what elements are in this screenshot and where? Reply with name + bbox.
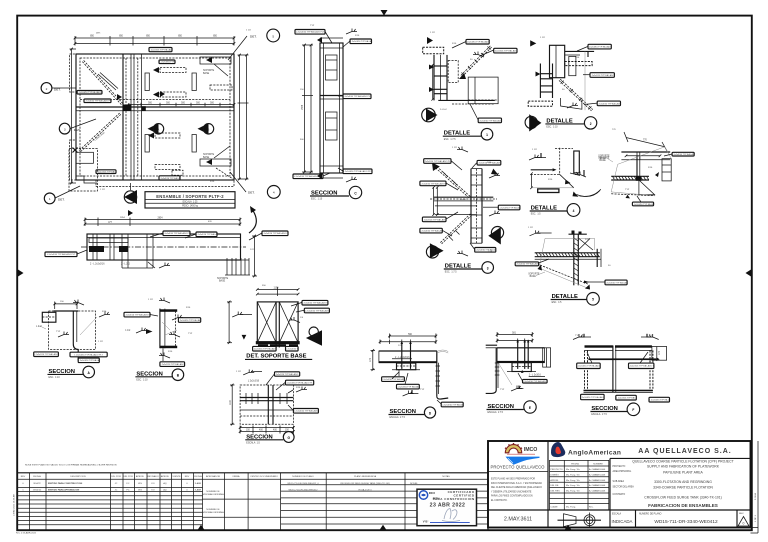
svg-text:L 2x2x3/16 TYP EA LADO: L 2x2x3/16 TYP EA LADO — [478, 119, 502, 122]
seccion C bottom detail — [317, 173, 357, 182]
plan top dimension lines — [74, 36, 236, 46]
svg-text:TYP: TYP — [649, 335, 654, 337]
table revision row 1 — [22, 482, 418, 485]
svg-text:BASE: BASE — [219, 280, 226, 283]
detalle 3 leader lines — [442, 161, 498, 250]
svg-text:Ma. Fang. Tch: Ma. Fang. Tch — [566, 485, 581, 487]
seccion D leader lines — [392, 372, 408, 384]
svg-text:ESC. 1:7.5: ESC. 1:7.5 — [445, 272, 457, 274]
detalle 5 tilted plate — [538, 238, 595, 289]
seccion C title — [310, 186, 362, 200]
plan short diagonal stiffener upper left — [98, 73, 118, 91]
svg-text:AQ: AQ — [163, 482, 166, 485]
iso leader lines — [637, 154, 672, 202]
detalle 3 left dimension lines — [432, 186, 438, 216]
elevation leader lines — [77, 233, 262, 254]
seccion G bottom dimensions — [239, 426, 295, 434]
svg-text:L 2x2x3/16 TYP EA LA: L 2x2x3/16 TYP EA LA — [159, 177, 181, 180]
svg-text:ESCALA: ESCALA — [612, 513, 622, 516]
svg-text:Rev. 0 23-ABR-2022: Rev. 0 23-ABR-2022 — [16, 532, 37, 535]
svg-text:1588: 1588 — [302, 104, 304, 110]
signature table — [550, 460, 609, 510]
svg-text:L 2x2x3/16 TYP EA LADO PLT: L 2x2x3/16 TYP EA LADO PLT — [285, 381, 314, 384]
seccion F weld flags top — [573, 334, 659, 340]
iso arrows — [626, 172, 660, 198]
svg-text:EL CONTRATO.: EL CONTRATO. — [491, 499, 508, 502]
detalle 1 bottom chord — [438, 100, 495, 104]
svg-text:L 2x2x3/16 TYP EA LADO: L 2x2x3/16 TYP EA LADO — [77, 91, 101, 94]
seccion B weld flags — [125, 298, 183, 359]
svg-text:L 2x2x3/16 TYP EA L: L 2x2x3/16 TYP EA L — [616, 397, 636, 400]
seccion G weld flag right — [288, 387, 307, 394]
svg-text:Ma. Fang. Tch: Ma. Fang. Tch — [566, 469, 581, 471]
svg-text:L 2x2x3/16 TYP EA LADO PLT: L 2x2x3/16 TYP EA LADO PLT — [343, 170, 372, 173]
det soporte frame — [257, 302, 298, 343]
svg-text:L 2x2x3/16 TYP EA LADO P: L 2x2x3/16 TYP EA LADO P — [274, 373, 301, 376]
svg-text:IMCO: IMCO — [429, 492, 435, 495]
seccion E right end plate — [543, 348, 551, 367]
svg-text:2.MAY.3611: 2.MAY.3611 — [504, 517, 532, 523]
svg-text:TYP: TYP — [420, 389, 425, 391]
svg-text:CENTRO DOCUMENTARIO: CENTRO DOCUMENTARIO — [250, 475, 278, 478]
svg-text:1 1/2: 1 1/2 — [452, 147, 458, 149]
svg-text:9-ABR: 9-ABR — [195, 489, 202, 492]
detalle 4 left dimension — [530, 172, 533, 189]
elevation left angle texts — [90, 264, 131, 266]
detalle 4 title — [530, 204, 580, 217]
stamp date red — [430, 502, 466, 508]
seccion C left dimension lines — [302, 44, 313, 174]
detalle 2 top beam — [565, 51, 594, 57]
svg-text:TYP: TYP — [310, 25, 315, 27]
fold mark bottom 2 — [380, 525, 387, 530]
svg-text:L 2x2x3/16 TYP EA LADO PLT: L 2x2x3/16 TYP EA LADO PLT — [343, 95, 372, 98]
seccion F top beam right — [615, 345, 652, 350]
seccion G view — [230, 369, 318, 444]
svg-text:L 2x2x3/16 TYP EA LAD: L 2x2x3/16 TYP EA LAD — [420, 230, 443, 233]
svg-text:A. CABANILLAS: A. CABANILLAS — [589, 479, 606, 482]
detalle 1 dashed vertical plate — [448, 61, 458, 83]
svg-text:TYP: TYP — [500, 389, 505, 391]
elevation main beam — [81, 234, 246, 260]
seccion G title — [245, 432, 294, 445]
svg-text:L 2x2x3/16 TYP EA LADO PLT: L 2x2x3/16 TYP EA LADO PLT — [423, 160, 452, 163]
seccion F right end box — [652, 347, 667, 361]
title block disclaimer text — [491, 478, 542, 503]
seccion G angle text — [248, 380, 260, 382]
detalle 2 bottom gusset plate — [561, 98, 582, 109]
seccion F middle horizontal bar — [588, 357, 659, 361]
svg-text:4: 4 — [273, 191, 275, 195]
iso tilted plate outline — [611, 147, 671, 196]
fold mark right — [746, 270, 752, 277]
seccion E lower box — [507, 363, 536, 372]
svg-text:FABRICACION DE ENSAMBLES: FABRICACION DE ENSAMBLES — [648, 503, 718, 508]
svg-text:CROSSFLOW FEED SURGE TANK (334: CROSSFLOW FEED SURGE TANK (3340-TK-101) — [340, 482, 390, 485]
svg-text:3340-COARSE PARTICLE FLOTATION: 3340-COARSE PARTICLE FLOTATION — [653, 486, 713, 490]
table row lines middle section — [203, 499, 281, 517]
detalle 3 label boxes — [420, 159, 520, 252]
detalle 5 weld flag top — [530, 230, 552, 236]
seccion F view — [573, 334, 670, 416]
svg-text:L 2x2x3/16 TYP EA LAD: L 2x2x3/16 TYP EA LAD — [672, 153, 695, 156]
svg-text:A. CABANILLAS: A. CABANILLAS — [589, 484, 606, 487]
svg-text:L 2x2x3/16 TYP EA LAD: L 2x2x3/16 TYP EA LAD — [149, 49, 172, 52]
svg-text:DET.: DET. — [58, 198, 65, 202]
table column lines — [30, 473, 406, 530]
svg-text:WD15-711-DR-3340-WE0412_0: WD15-711-DR-3340-WE0412_0 — [287, 483, 319, 485]
detalle 3 title — [444, 262, 494, 274]
svg-text:L 2x2x3/16 TYP EA LADO: L 2x2x3/16 TYP EA LADO — [588, 46, 612, 49]
detalle 5 label boxes — [515, 262, 628, 285]
detalle 2 title — [545, 117, 596, 129]
svg-text:FIRMA: FIRMA — [233, 475, 240, 478]
det soporte weld flags — [232, 312, 300, 323]
svg-text:SECTOR DEL AREA: SECTOR DEL AREA — [613, 486, 635, 489]
plan stiffener dashed boxes lower right quadrant — [148, 133, 183, 181]
table outer frame — [17, 473, 488, 530]
svg-text:NOTA: ESTE PLANO NO VALIDO SOL: NOTA: ESTE PLANO NO VALIDO SOLO CON FIRM… — [25, 464, 117, 467]
svg-text:L 2x2x3/16 TYP EA LADO PL: L 2x2x3/16 TYP EA LADO PL — [163, 232, 191, 235]
svg-text:CLASE: CLASE — [550, 506, 558, 509]
seccion F bottom label boxes — [580, 394, 669, 402]
svg-text:1 1/2: 1 1/2 — [540, 37, 546, 39]
plan left quadrant label bars — [77, 91, 117, 174]
svg-text:BASE: BASE — [530, 275, 537, 278]
svg-text:PLANO REFERENCIA: PLANO REFERENCIA — [354, 475, 377, 478]
svg-text:L 2x2x3/16 TYP EA LADO: L 2x2x3/16 TYP EA LADO — [580, 396, 604, 399]
plan section arrow B — [198, 123, 214, 134]
plan wall crossing dark plates — [123, 105, 146, 111]
seccion E bolt lines — [516, 340, 529, 373]
svg-text:ESC. 1:7.5: ESC. 1:7.5 — [444, 139, 456, 141]
detalle 2 vertical leader line — [584, 51, 586, 110]
svg-text:FECHA: FECHA — [194, 475, 202, 478]
svg-text:L 2x2x3/16 TYP EA LADO: L 2x2x3/16 TYP EA LADO — [252, 348, 276, 351]
svg-text:L 2x2x3/16 TYP EA LADO: L 2x2x3/16 TYP EA LADO — [515, 263, 539, 266]
svg-text:APROBADOR: APROBADOR — [206, 475, 220, 478]
detalle 3 section arrow right — [488, 227, 503, 245]
svg-text:TYP: TYP — [488, 251, 493, 253]
svg-text:SUPPLY AND FABRICATION OF PLAT: SUPPLY AND FABRICATION OF PLATEWORK — [647, 465, 720, 469]
detalle 5 top right diagonal — [578, 238, 593, 250]
seccion A left box — [42, 312, 56, 322]
plan top center label boxes — [149, 48, 175, 64]
svg-text:23 ABR 2022: 23 ABR 2022 — [430, 502, 466, 508]
iso soporte text — [598, 156, 613, 163]
project description block — [613, 459, 734, 508]
detalle 2 label boxes — [588, 44, 622, 105]
svg-text:AA QUELLAVECO S.A.: AA QUELLAVECO S.A. — [638, 448, 731, 455]
seccion A label boxes — [34, 352, 108, 363]
svg-text:L 2x2x3/16 TYP EA LADO: L 2x2x3/16 TYP EA LADO — [597, 102, 621, 105]
det soporte left dimension — [227, 301, 232, 344]
detalle 2 leader lines — [577, 46, 597, 104]
svg-text:PESO: 1450 kg: PESO: 1450 kg — [182, 206, 199, 208]
seccion C main member — [320, 43, 343, 173]
detalle 1 leader lines — [452, 42, 494, 121]
svg-text:DET.: DET. — [250, 34, 257, 38]
svg-text:F-0914: F-0914 — [755, 492, 757, 500]
detalle 1 label boxes — [466, 39, 518, 122]
svg-text:1: 1 — [486, 133, 488, 137]
svg-text:DIS. POR: DIS. POR — [111, 476, 121, 478]
detalle 4 view — [529, 148, 610, 217]
det soporte top dimensions — [256, 287, 299, 296]
svg-text:L 2x2x3/16 TYP EA LADO P: L 2x2x3/16 TYP EA LADO P — [302, 302, 329, 305]
svg-text:ESCALA 1:5: ESCALA 1:5 — [246, 442, 260, 445]
svg-text:1 1/2: 1 1/2 — [98, 341, 104, 343]
iso label boxes — [632, 152, 694, 206]
title block bottom row cells — [548, 510, 737, 528]
svg-text:L 2x2x3/16 TYP EA LADO: L 2x2x3/16 TYP EA LADO — [294, 410, 318, 413]
svg-text:L 2x2x3/16 TYP EA LADO PLT: L 2x2x3/16 TYP EA LADO PLT — [296, 31, 325, 34]
date 2may3611 cell — [504, 517, 532, 523]
detalle 1 vertical member ladder — [429, 55, 447, 101]
svg-text:AREA PRINCIPAL: AREA PRINCIPAL — [613, 470, 632, 473]
seccion B title — [135, 369, 183, 382]
det soporte leader lines — [291, 302, 304, 312]
svg-text:L 2x2x3/16 TYP EA LADO: L 2x2x3/16 TYP EA LADO — [466, 41, 490, 44]
seccion B leader lines — [162, 322, 177, 335]
svg-text:SOPORTE: SOPORTE — [203, 70, 215, 72]
plan detail callout 4 — [230, 172, 280, 198]
svg-text:L 2x2x3/16 TYP EA LA: L 2x2x3/16 TYP EA LA — [475, 249, 497, 252]
detalle 3 diagonal brace upper — [432, 163, 470, 198]
svg-text:DISEÑO: DISEÑO — [550, 473, 559, 476]
table header row — [17, 475, 488, 479]
detalle 5 vertical member — [574, 235, 579, 286]
title block vertical dividers — [548, 441, 610, 510]
seccion F vertical dashed columns — [585, 350, 653, 389]
svg-text:DEL CLIENTE ANGLO AMERICAN QUE: DEL CLIENTE ANGLO AMERICAN QUELLAVECO — [491, 486, 542, 489]
plan vertical stiffener plates — [145, 73, 196, 152]
fold mark left — [18, 270, 24, 277]
svg-text:L 2x2x3/16 TYP EA LADO: L 2x2x3/16 TYP EA LADO — [422, 218, 446, 221]
detalle 2 section arrow — [525, 114, 541, 131]
svg-text:PARA LOS FINES CONTEMPLADOS EN: PARA LOS FINES CONTEMPLADOS EN — [491, 495, 533, 498]
svg-text:KO: KO — [151, 483, 154, 485]
svg-text:L 2x2x3/16 TYP EA LADO: L 2x2x3/16 TYP EA LADO — [160, 363, 184, 366]
svg-text:L 2x2x3/16 TYP EA LA: L 2x2x3/16 TYP EA LA — [78, 359, 100, 362]
svg-text:ESC. 1:10: ESC. 1:10 — [546, 127, 558, 129]
svg-text:1 1/2: 1 1/2 — [236, 371, 242, 373]
seccion A view — [34, 300, 110, 380]
svg-text:1 1/2: 1 1/2 — [528, 227, 534, 229]
table row lines right section — [281, 485, 488, 524]
elevation weld symbol — [148, 262, 170, 268]
svg-text:L 2x2x3/16: L 2x2x3/16 — [248, 380, 260, 382]
seccion A weld flags — [36, 300, 110, 338]
plan bottom overhang dashed — [96, 180, 234, 187]
svg-text:L 2x2x3/16 TYP EA L: L 2x2x3/16 TYP EA L — [96, 171, 116, 174]
svg-text:ESC. 1:10: ESC. 1:10 — [49, 377, 61, 379]
svg-text:1 1/2: 1 1/2 — [125, 330, 131, 332]
detalle 5 top cap — [569, 231, 587, 235]
rev triangle cell — [738, 513, 749, 526]
seccion B left label box — [124, 312, 158, 317]
table side vertical text — [13, 494, 16, 516]
detalle 5 title — [551, 293, 600, 306]
iso corner detail view — [598, 132, 695, 206]
seccion E label box — [518, 373, 547, 383]
svg-text:L 2x2x3/16 TYP EA LA: L 2x2x3/16 TYP EA LA — [633, 203, 655, 206]
svg-text:ESTE PLANO HA SIDO PREPARADO P: ESTE PLANO HA SIDO PREPARADO POR — [491, 478, 535, 481]
svg-text:QUELLAVECO COARSE PARTICLE FLO: QUELLAVECO COARSE PARTICLE FLOTATION (CP… — [632, 459, 733, 463]
svg-text:9/04/22: 9/04/22 — [33, 483, 41, 485]
svg-text:2-MAY-2022 10:40 AM: 2-MAY-2022 10:40 AM — [13, 494, 16, 516]
svg-text:BASE: BASE — [203, 72, 210, 75]
svg-text:L 2x2x3/16 TYP EA L: L 2x2x3/16 TYP EA L — [649, 399, 669, 402]
svg-text:Ma. Fang. Tch: Ma. Fang. Tch — [566, 491, 581, 493]
svg-text:L 2x2x3/16 TYP EA LADO PL: L 2x2x3/16 TYP EA LADO PL — [84, 100, 112, 103]
detalle 4 bottom line — [532, 187, 574, 189]
detalle 1 flag arrow — [427, 37, 433, 44]
seccion D gray swoosh — [437, 350, 448, 353]
plan outer wall rectangle — [76, 54, 234, 180]
detalle 2 dashed plate mid — [565, 62, 592, 66]
svg-text:CONTRATO: CONTRATO — [613, 493, 626, 496]
detalle 3 weld flags — [457, 147, 500, 257]
stamp blue certification text — [433, 490, 475, 501]
det soporte label boxes — [252, 300, 329, 351]
fold mark bottom 1 — [198, 525, 205, 530]
detalle 4 weld symbol right — [570, 170, 586, 177]
seccion G label boxes — [274, 372, 318, 413]
table note text — [25, 464, 117, 467]
svg-text:DIB. REV.: DIB. REV. — [550, 491, 560, 493]
plan center vertical wall — [123, 54, 131, 180]
detalle 1 weld symbol — [473, 52, 484, 58]
svg-text:WD15-711-DR-3340-WE0412: WD15-711-DR-3340-WE0412 — [654, 519, 718, 525]
svg-text:Y DEBERA UTILIZARSE UNICAMENTE: Y DEBERA UTILIZARSE UNICAMENTE — [491, 490, 532, 493]
seccion F center vertical member — [613, 346, 616, 393]
svg-text:A. CABANILLAS: A. CABANILLAS — [589, 468, 606, 471]
title block bottom row line — [488, 509, 751, 511]
svg-text:BASE: BASE — [600, 157, 607, 160]
svg-text:L 2x2x3/16 TYP EA LADO: L 2x2x3/16 TYP EA LADO — [576, 365, 600, 368]
plan detail callout 2 — [41, 83, 76, 94]
svg-text:REV.: REV. — [739, 513, 744, 515]
plan small node triangles — [117, 91, 165, 216]
seccion D bolt lines — [401, 341, 412, 369]
svg-text:3: 3 — [64, 127, 66, 131]
detalle 2 view — [525, 40, 621, 131]
svg-text:JC: JC — [115, 490, 118, 492]
svg-text:NUMERO DE PLANO: NUMERO DE PLANO — [292, 475, 314, 478]
plan interior dimension row — [127, 103, 236, 107]
seccion C internal ties — [326, 60, 337, 130]
svg-text:FECHA: FECHA — [33, 475, 41, 478]
svg-text:PROYECTO: PROYECTO — [613, 466, 626, 468]
seccion F mid label boxes — [576, 363, 654, 368]
svg-text:L 2x2x3/16 TYP EA LADO: L 2x2x3/16 TYP EA LADO — [590, 74, 614, 77]
svg-text:1 1/2: 1 1/2 — [532, 149, 538, 151]
svg-text:NUMERO DE PLANO: NUMERO DE PLANO — [639, 513, 662, 516]
tiny annotation texts — [56, 25, 654, 391]
svg-text:A. CABANILLAS: A. CABANILLAS — [589, 473, 606, 476]
iso top beam — [621, 152, 670, 160]
plan detail callout 1 — [44, 186, 80, 204]
stamp signature — [442, 509, 460, 522]
detalle 2 dashed plate bottom left — [528, 101, 552, 106]
svg-text:APROB.: APROB. — [136, 475, 145, 478]
det soporte center column — [276, 302, 279, 348]
detalle 4 soporte text — [598, 158, 610, 163]
svg-text:ESC. 1:10: ESC. 1:10 — [136, 380, 148, 382]
seccion G left dimension — [230, 384, 235, 426]
seccion A title — [48, 366, 95, 379]
svg-text:TYP: TYP — [625, 189, 630, 191]
svg-text:L 2x2x3/16 TYP: L 2x2x3/16 TYP — [160, 62, 175, 64]
aa quellaveco title — [610, 448, 751, 459]
svg-text:KO: KO — [151, 490, 154, 492]
svg-text:5: 5 — [592, 298, 594, 302]
svg-text:NOTAS: NOTAS — [442, 475, 450, 478]
seccion A top plate — [53, 302, 78, 312]
svg-text:PROYECTO QUELLAVECO: PROYECTO QUELLAVECO — [490, 464, 545, 469]
svg-text:FC: FC — [127, 483, 130, 485]
detalle 1 left dimension — [431, 64, 434, 101]
svg-text:WG: WG — [138, 483, 142, 485]
svg-text:TYP: TYP — [575, 335, 580, 337]
plan corner pocket lower left — [69, 148, 97, 192]
svg-text:NOMBRE: NOMBRE — [593, 464, 603, 466]
fold mark top — [381, 10, 388, 16]
seccion D left dimension — [370, 349, 375, 371]
svg-text:L 2x2x3/16 TYP EA LADO P: L 2x2x3/16 TYP EA LADO P — [124, 314, 151, 317]
svg-text:TYP: TYP — [188, 333, 193, 335]
plan section arrow A — [148, 123, 164, 134]
seccion F title — [590, 403, 639, 416]
svg-text:BASE: BASE — [203, 156, 210, 159]
detalle 3 top right solid arrow — [491, 169, 498, 175]
detalle 3 diagonal brace lower — [440, 214, 471, 244]
projection symbol — [558, 513, 602, 529]
svg-text:ESCALA 1:25: ESCALA 1:25 — [183, 200, 199, 203]
svg-text:ESCALA 1:7.5: ESCALA 1:7.5 — [591, 413, 607, 416]
svg-text:ESC. 1:5: ESC. 1:5 — [552, 302, 563, 304]
title block — [488, 441, 758, 533]
svg-text:DET.: DET. — [248, 191, 255, 195]
detalle 3 view — [420, 147, 520, 274]
svg-text:5: 5 — [272, 34, 274, 38]
plan diagonal brace upper left — [82, 60, 122, 104]
svg-text:JC: JC — [115, 483, 118, 485]
iso hatched bottom bar — [611, 176, 649, 180]
plan stiffener dashed boxes upper right quadrant — [153, 67, 232, 98]
svg-text:3: 3 — [487, 266, 489, 270]
det soporte base view — [227, 287, 329, 360]
svg-text:Ma. Fang.: Ma. Fang. — [566, 507, 576, 509]
approval stamp — [417, 489, 477, 526]
iso vertical weld member — [636, 156, 642, 181]
svg-text:PARA CONSTRUCCION: PARA CONSTRUCCION — [433, 497, 475, 501]
svg-text:L 2x2x3/16 TYP EA LA: L 2x2x3/16 TYP EA LA — [196, 233, 218, 236]
svg-text:AngloAmerican: AngloAmerican — [568, 450, 621, 457]
seccion E main beam — [497, 348, 544, 363]
detalle 4 weld flag left — [529, 153, 546, 160]
det soporte down triangle — [242, 335, 247, 340]
detalle 3 horizontal member — [430, 197, 497, 214]
detalle 1 base plate square — [468, 77, 498, 104]
svg-text:1: 1 — [49, 197, 51, 201]
svg-text:NOTAS: NOTAS — [410, 482, 418, 485]
elevation right support — [217, 258, 250, 283]
right margin strip — [751, 441, 759, 533]
svg-text:PROYECTO: PROYECTO — [550, 469, 563, 471]
svg-text:PAPUJUNE PLANT AREA: PAPUJUNE PLANT AREA — [663, 471, 703, 475]
